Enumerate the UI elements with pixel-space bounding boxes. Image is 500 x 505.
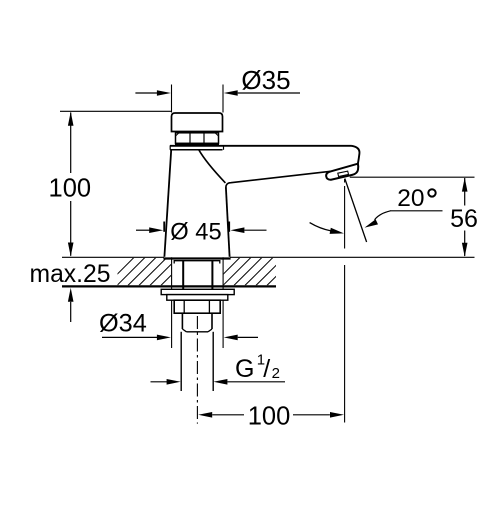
dimension arrow left (Ø34) xyxy=(102,336,158,338)
cap lower edge line xyxy=(177,131,218,133)
dimension arrow right (Ø45) xyxy=(230,227,244,233)
deck hole edge / Ø34 extension line left xyxy=(171,257,173,348)
boss chamfer right xyxy=(208,329,212,332)
dimension arrow left (Ø45) xyxy=(136,229,150,231)
svg-text:Ø 45: Ø 45 xyxy=(170,220,221,246)
body left edge xyxy=(164,150,171,257)
100 projection dimension line xyxy=(212,414,244,416)
washer line under nut xyxy=(175,143,219,145)
mounting deck bottom thick line xyxy=(62,285,276,287)
swivel arc with arrow xyxy=(310,223,331,231)
deck hole edge / Ø34 extension line right xyxy=(222,257,224,348)
deck hatching left xyxy=(106,257,189,285)
arrow up (56) xyxy=(462,178,468,192)
dimension arrow right (G 1/2) xyxy=(213,379,227,385)
push button cap xyxy=(172,113,223,132)
svg-text:100: 100 xyxy=(248,402,291,430)
locknut xyxy=(174,300,220,313)
svg-text:Ø34: Ø34 xyxy=(99,310,147,338)
shank shoulder line under body xyxy=(174,261,220,264)
100 height dimension line xyxy=(70,113,72,174)
body bottom thick line xyxy=(163,257,230,259)
boss bottom line xyxy=(186,331,208,333)
dimension arrow right with leader (Ø35) xyxy=(224,90,238,96)
aerator rectangle xyxy=(338,171,349,176)
spout top line xyxy=(170,145,352,147)
tap axis centre line xyxy=(196,316,198,424)
body flange bottom line xyxy=(170,149,223,151)
threaded shank right xyxy=(212,332,214,391)
svg-text:max.25: max.25 xyxy=(30,261,111,288)
flange right edge xyxy=(223,145,225,149)
arrow up (100) xyxy=(68,112,74,126)
hex nut under cap xyxy=(176,133,219,144)
dimension arrow left (G 1/2) xyxy=(151,381,168,383)
arrow left (100 projection) xyxy=(198,412,212,418)
20 degree flow line xyxy=(345,179,367,243)
threaded shank left xyxy=(180,332,182,391)
thread boss right xyxy=(211,313,213,329)
20° leader with arrow xyxy=(375,211,391,220)
svg-text:2: 2 xyxy=(272,365,280,382)
svg-text:100: 100 xyxy=(49,174,92,202)
56 reference line top (spout outlet level) xyxy=(350,176,475,178)
svg-text:/: / xyxy=(263,355,270,383)
mounting deck top line xyxy=(62,256,164,258)
flange left edge xyxy=(169,145,171,149)
hex nut facet lines xyxy=(189,133,191,144)
washer upper (wide) xyxy=(161,289,234,294)
arrow down (56) xyxy=(462,243,468,257)
shank through deck left xyxy=(182,261,184,290)
extension line right of cap (Ø35) xyxy=(222,85,224,113)
spout underside with fillet xyxy=(226,171,331,188)
body right edge xyxy=(226,188,230,257)
arrow right (100 projection) xyxy=(330,412,344,418)
svg-text:20: 20 xyxy=(397,185,424,212)
svg-text:56: 56 xyxy=(450,205,478,233)
spout end curve xyxy=(352,146,360,164)
deck hatching right xyxy=(212,257,295,285)
tick right (Ø45) xyxy=(228,222,230,232)
100 height extension line top xyxy=(60,110,172,112)
boss chamfer left xyxy=(182,329,186,332)
shank through deck right xyxy=(211,261,213,290)
thread boss left xyxy=(181,313,183,329)
washer lower (narrow) xyxy=(167,295,228,301)
extension line left of cap (Ø35) xyxy=(171,85,173,113)
tick left (Ø45) xyxy=(163,222,165,232)
body shoulder contour xyxy=(199,150,226,183)
dimension arrow right (Ø34) xyxy=(224,335,238,341)
nozzle (mousseur outlet) xyxy=(326,164,358,180)
56 dimension line xyxy=(464,178,466,206)
20° underline xyxy=(390,210,443,212)
dimension arrow left (Ø35) xyxy=(135,92,158,94)
locknut facet lines xyxy=(183,300,185,313)
svg-text:G: G xyxy=(235,355,254,383)
arrow down (100) xyxy=(68,243,74,257)
outlet axis centre line xyxy=(344,179,346,423)
svg-text:Ø35: Ø35 xyxy=(241,65,290,95)
max.25 arrow up at deck underside xyxy=(68,288,74,302)
